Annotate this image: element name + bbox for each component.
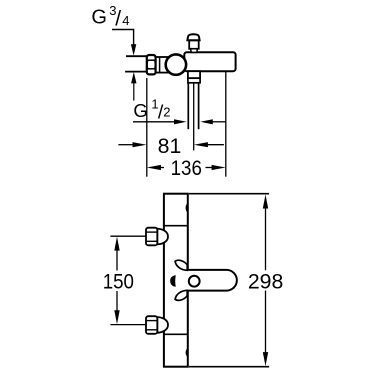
svg-text:G: G: [91, 6, 107, 28]
svg-text:136: 136: [171, 156, 202, 180]
svg-text:G: G: [133, 100, 147, 121]
svg-text:298: 298: [248, 269, 284, 293]
svg-text:2: 2: [163, 104, 170, 119]
svg-text:150: 150: [103, 269, 134, 293]
svg-text:81: 81: [158, 134, 182, 158]
svg-text:4: 4: [122, 13, 129, 28]
svg-text:/: /: [115, 7, 121, 30]
